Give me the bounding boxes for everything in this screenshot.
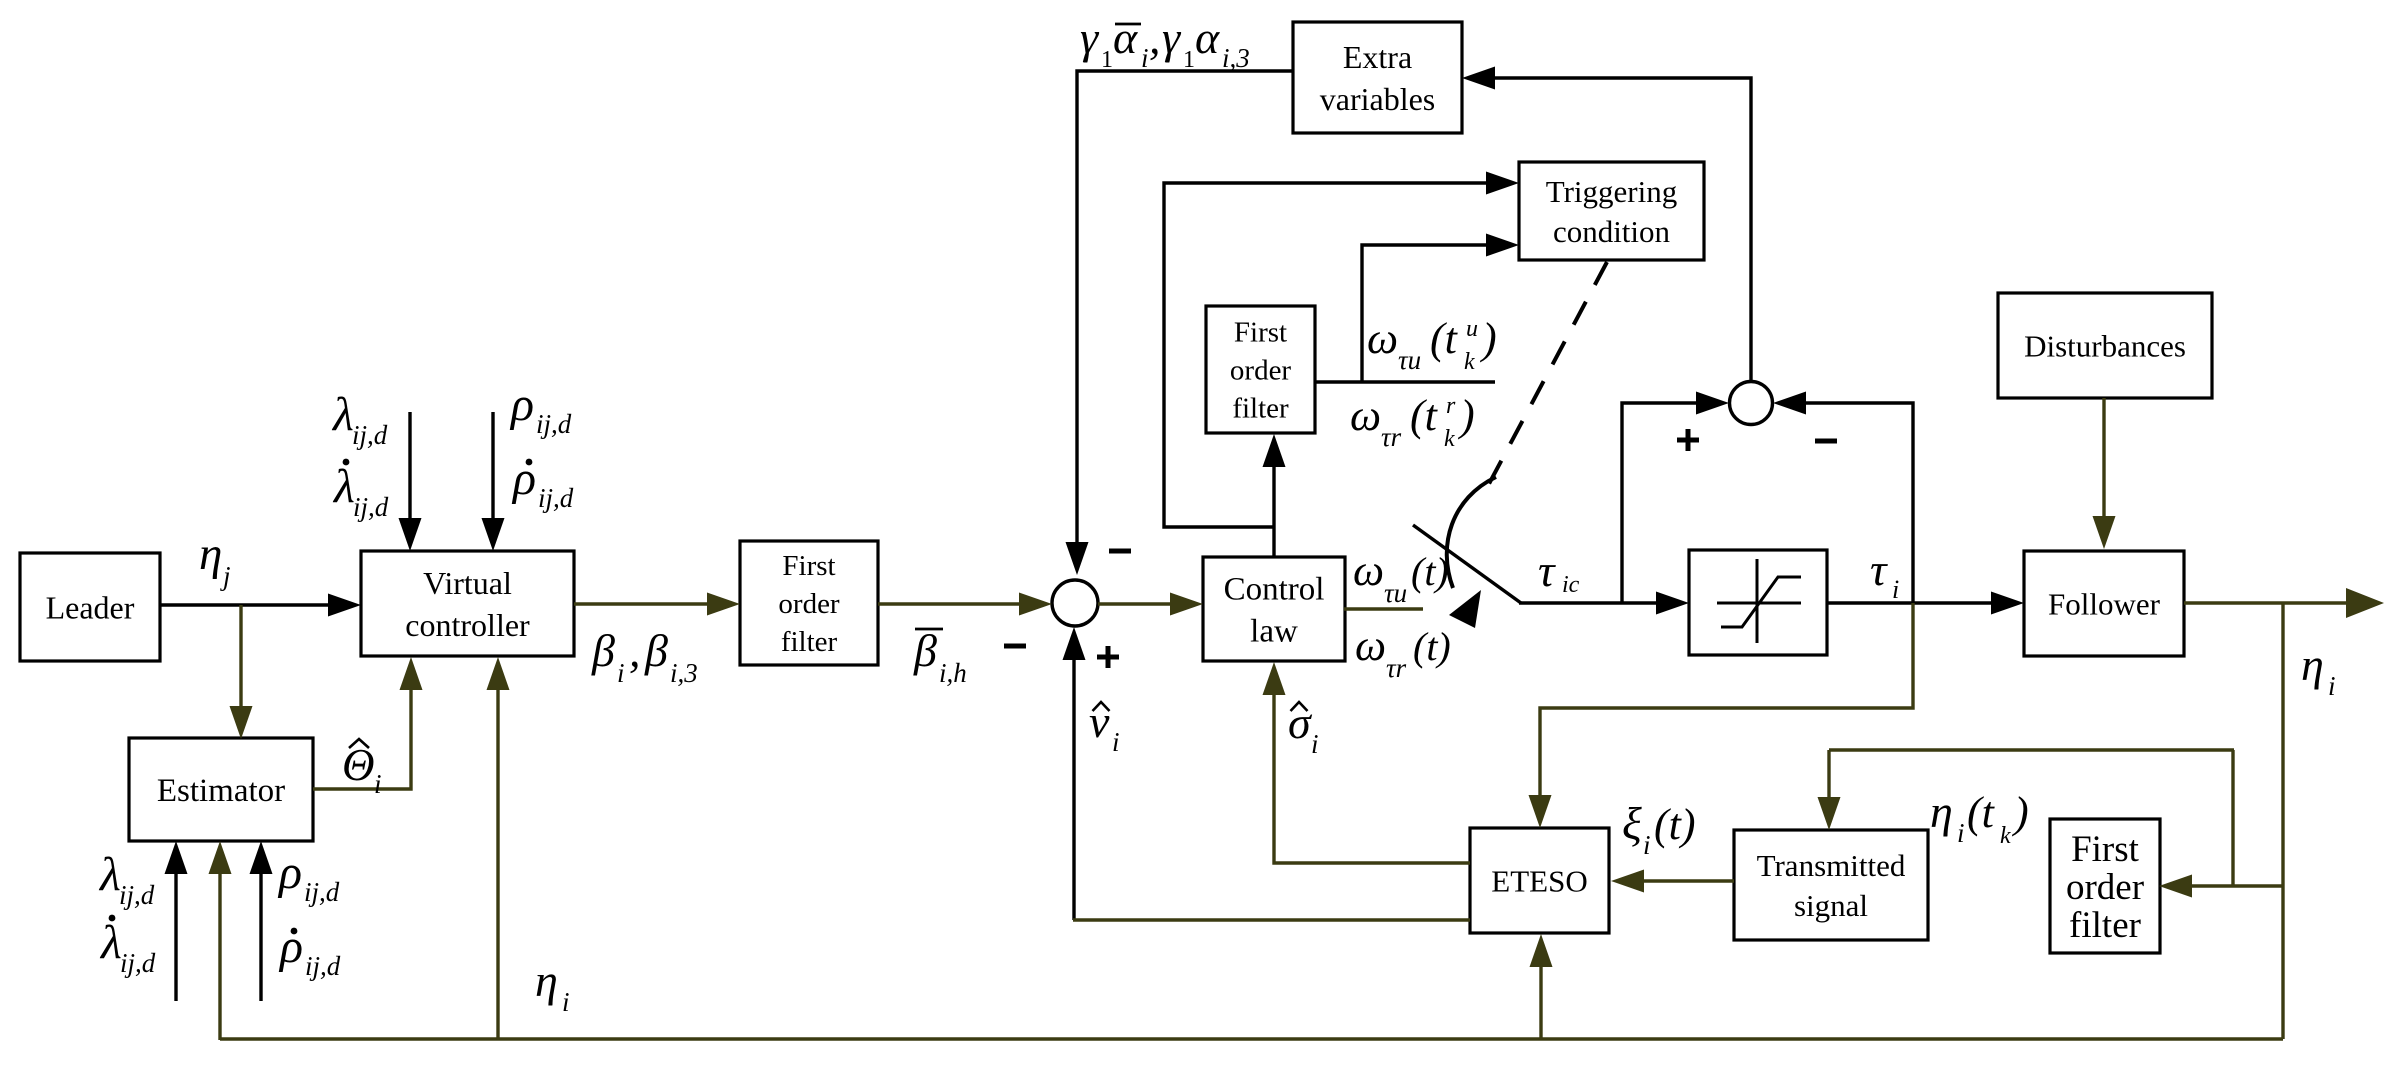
svg-text:Estimator: Estimator (157, 773, 285, 809)
wire rho_ij,d input arrow into Virtual controller top (482, 412, 505, 551)
block Extra variables (1293, 22, 1462, 133)
svg-text:Transmitted: Transmitted (1757, 848, 1906, 883)
svg-text:i: i (617, 658, 625, 688)
label minus at J1 top (1109, 549, 1131, 554)
svg-text:): ) (2011, 788, 2029, 837)
wire drop into Transmitted signal top (1818, 750, 1841, 830)
svg-text:i: i (1112, 727, 1120, 757)
wire ETESO to J1 bottom (nu_hat_i) (1063, 627, 1086, 920)
label beta_bar_i,h (913, 625, 967, 688)
svg-text:τ: τ (1538, 545, 1556, 596)
summing junction J1 (1052, 580, 1098, 626)
svg-text:Virtual: Virtual (423, 565, 512, 601)
svg-text:τu: τu (1398, 345, 1421, 375)
svg-text:(t): (t) (1411, 549, 1449, 594)
svg-text:filter: filter (2069, 905, 2141, 946)
svg-text:Leader: Leader (46, 589, 135, 625)
svg-text:ω: ω (1353, 546, 1384, 595)
svg-text:(t: (t (1967, 788, 1996, 837)
label minus at J2 (1815, 439, 1837, 444)
block Disturbances (1998, 293, 2212, 398)
svg-text:λ: λ (331, 388, 354, 441)
label rho_dot_ij,d (top) (511, 452, 574, 513)
label omega_tau_r(t_k^r) (1350, 391, 1475, 452)
svg-text:law: law (1250, 614, 1298, 650)
label rho_ij,d (top) (509, 378, 572, 439)
block First order filter (top) (1206, 306, 1315, 433)
block First order filter (bottom right) (2050, 819, 2160, 953)
svg-text:β: β (644, 625, 668, 676)
svg-text:filter: filter (1232, 393, 1289, 425)
switch closing arc with arrowhead (1447, 477, 1496, 628)
wire First order filter (top) output bar (1314, 380, 1495, 383)
label eta_j (199, 528, 231, 591)
svg-text:First: First (1234, 317, 1287, 349)
label tau_i (1870, 544, 1899, 604)
svg-text:Follower: Follower (2048, 586, 2161, 621)
label lambda_ij,d (top) (331, 388, 388, 450)
wire Leader to Virtual controller (eta_j) (160, 594, 361, 617)
label omega_tau_r(t) (1355, 621, 1451, 683)
label nu_hat_i (1089, 696, 1120, 757)
svg-text:γ: γ (1080, 12, 1100, 63)
svg-text:ρ: ρ (278, 920, 303, 973)
svg-text:Disturbances: Disturbances (2024, 328, 2186, 363)
svg-text:η: η (535, 955, 558, 1006)
wire switch arm (1413, 525, 1521, 603)
wire Transmitted signal to ETESO (xi) (1611, 870, 1734, 893)
svg-text:1: 1 (1101, 47, 1113, 73)
svg-text:ω: ω (1367, 314, 1398, 363)
wire J1 to Control law (1098, 593, 1203, 616)
svg-text:i: i (562, 987, 570, 1017)
wire eta_i into First order filter (bottom right) (2159, 875, 2283, 898)
svg-text:β: β (913, 625, 937, 676)
svg-text:ξ: ξ (1622, 798, 1642, 849)
block saturation (limiter) (1689, 550, 1827, 655)
svg-text:γ: γ (1162, 12, 1182, 63)
svg-text:ij,d: ij,d (353, 492, 389, 522)
wire First order filter to J1 (beta_bar_ih) (878, 593, 1052, 616)
svg-text:η: η (1930, 786, 1953, 837)
wire ETESO left to nu corner (1073, 918, 1470, 921)
svg-text:β: β (591, 625, 615, 676)
svg-text:ETESO: ETESO (1491, 863, 1587, 898)
svg-text:i: i (1957, 818, 1965, 848)
block ETESO (1470, 828, 1609, 933)
svg-text:λ: λ (98, 848, 121, 901)
wire Disturbances to Follower (2093, 398, 2116, 549)
wire switch pivot to saturation (tau_ic) (1519, 592, 1689, 615)
svg-text:ω: ω (1355, 621, 1386, 670)
svg-text:i: i (2328, 671, 2336, 701)
wire Virtual controller to First order filter (beta_i) (574, 593, 740, 616)
svg-text:1: 1 (1183, 47, 1195, 73)
svg-text:ij,d: ij,d (536, 409, 572, 439)
svg-text:condition: condition (1553, 214, 1671, 249)
label eta_i right (2301, 639, 2336, 701)
wire Control law top to First order filter top (1263, 434, 1286, 557)
label Theta_hat_i (342, 739, 382, 799)
svg-text:u: u (1466, 316, 1478, 342)
svg-text:k: k (2000, 823, 2011, 849)
block Follower (2024, 551, 2184, 656)
svg-text:η: η (2301, 639, 2324, 690)
svg-text:i,3: i,3 (1222, 43, 1250, 73)
svg-text:r: r (1446, 393, 1456, 419)
wire tau_i feedback down to ETESO top (1529, 603, 1914, 828)
svg-text:α: α (1195, 12, 1220, 63)
wire Extra variables output to J1 top (gamma feedback) (1066, 71, 1294, 575)
wire Estimator to Virtual controller (Theta_hat) (313, 657, 423, 789)
svg-text:ij,d: ij,d (304, 877, 340, 907)
svg-text:order: order (778, 588, 840, 620)
label tau_ic (1538, 545, 1580, 598)
svg-text:): ) (1479, 314, 1497, 363)
svg-text:(t: (t (1410, 391, 1439, 440)
label plus at J1 bottom (1097, 646, 1119, 668)
wire horizontal y750 (1829, 748, 2234, 751)
svg-text:(t): (t) (1413, 624, 1451, 669)
wire tap to Triggering condition input 2 (1362, 234, 1519, 383)
label lambda_ij,d (estimator) (98, 848, 155, 910)
svg-text:ij,d: ij,d (538, 483, 574, 513)
wire Follower output (eta_i) (2184, 588, 2384, 618)
label lambda_dot_ij,d (estimator) (99, 915, 156, 978)
svg-text:i: i (1141, 43, 1149, 73)
svg-text:i: i (1643, 830, 1651, 860)
svg-text:i,3: i,3 (670, 658, 698, 688)
svg-text:i: i (1892, 575, 1899, 604)
wire saturation to Follower (tau_i) (1827, 592, 2024, 615)
svg-text:ij,d: ij,d (352, 420, 388, 450)
svg-text:k: k (1464, 349, 1475, 375)
svg-text:ρ: ρ (511, 452, 536, 505)
svg-text:ρ: ρ (509, 378, 534, 431)
svg-text:,: , (1149, 12, 1161, 63)
svg-text:First: First (782, 550, 835, 582)
wire branch up to J2 minus input (1773, 392, 1913, 604)
svg-text:,: , (629, 625, 641, 676)
wire dashed trigger line (1482, 262, 1607, 497)
wire up into ETESO bottom (1530, 934, 1553, 1040)
summing junction J2 (1730, 382, 1773, 425)
svg-text:i,h: i,h (939, 658, 967, 688)
wire Control law output bar (omega) (1344, 607, 1423, 610)
svg-text:λ: λ (332, 460, 355, 513)
block First order filter (left) (740, 541, 878, 665)
label xi_i(t) (1622, 798, 1696, 860)
wire rho arrow into Estimator bottom (250, 841, 273, 1001)
wire eta_i branch down (2281, 603, 2284, 1039)
svg-text:k: k (1444, 426, 1455, 452)
svg-text:(t: (t (1430, 314, 1459, 363)
label beta_i, beta_i3 (591, 625, 698, 688)
block Transmitted signal (1734, 830, 1928, 940)
wire ETESO to Control law bottom (sigma_hat) (1263, 662, 1471, 863)
wire up into Estimator bottom (eta feedback) (209, 841, 232, 1040)
svg-text:Θ: Θ (342, 740, 375, 790)
svg-text:order: order (2066, 867, 2144, 908)
wire riser x2233 (2231, 750, 2234, 886)
svg-text:signal: signal (1794, 888, 1868, 923)
svg-text:λ: λ (99, 916, 122, 969)
wire lambda arrow into Estimator bottom (165, 841, 188, 1001)
svg-text:τr: τr (1386, 653, 1407, 683)
wire J2 to Extra variables (1462, 67, 1751, 382)
svg-text:ij,d: ij,d (305, 951, 341, 981)
svg-text:First: First (2071, 829, 2140, 870)
wire branch up to J2 plus input (1622, 392, 1729, 604)
svg-text:i: i (1311, 729, 1319, 759)
label rho_dot_ij,d (estimator) (278, 920, 341, 981)
svg-text:ρ: ρ (277, 846, 302, 899)
label omega_tau_u(t_k^u) (1367, 314, 1497, 375)
block Leader (20, 553, 160, 661)
label plus at J2 (1677, 429, 1699, 451)
label gamma alpha (1080, 12, 1250, 73)
label lambda_dot_ij,d (top) (332, 459, 389, 522)
svg-text:controller: controller (405, 607, 530, 643)
svg-text:order: order (1230, 355, 1292, 387)
label rho_ij,d (estimator) (277, 846, 340, 907)
svg-text:η: η (199, 528, 222, 580)
wire branch down to Estimator (230, 605, 253, 739)
wire tap to Triggering condition input 1 (1164, 172, 1519, 528)
svg-text:Control: Control (1224, 572, 1325, 608)
svg-text:): ) (1457, 391, 1475, 440)
wire lambda_ij,d input arrow into Virtual controller top (399, 412, 422, 551)
svg-text:τu: τu (1384, 578, 1407, 608)
svg-text:ij,d: ij,d (119, 880, 155, 910)
label eta_i(t_k) (1930, 786, 2029, 849)
block Triggering condition (1519, 162, 1704, 260)
svg-text:(t): (t) (1654, 800, 1696, 849)
label minus at J1 left (1004, 644, 1026, 649)
label omega_tau_u(t) (1353, 546, 1449, 608)
svg-text:variables: variables (1320, 81, 1436, 117)
label eta_i bottom (535, 955, 570, 1017)
svg-text:ic: ic (1562, 572, 1580, 598)
svg-text:Extra: Extra (1343, 39, 1412, 75)
svg-text:τ: τ (1870, 544, 1888, 595)
wire up into Virtual controller bottom (eta_i) (487, 657, 510, 1040)
block Estimator (129, 738, 313, 841)
svg-text:filter: filter (781, 626, 838, 658)
svg-text:τr: τr (1381, 422, 1402, 452)
svg-text:α: α (1113, 12, 1138, 63)
svg-text:ω: ω (1350, 391, 1381, 440)
label sigma_hat_i (1288, 697, 1319, 759)
svg-text:Triggering: Triggering (1546, 174, 1677, 209)
svg-text:ij,d: ij,d (120, 948, 156, 978)
block Control law (1203, 557, 1345, 661)
block Virtual controller (361, 551, 574, 656)
wire long bottom feedback line (220, 1037, 2283, 1040)
svg-text:i: i (374, 769, 382, 799)
